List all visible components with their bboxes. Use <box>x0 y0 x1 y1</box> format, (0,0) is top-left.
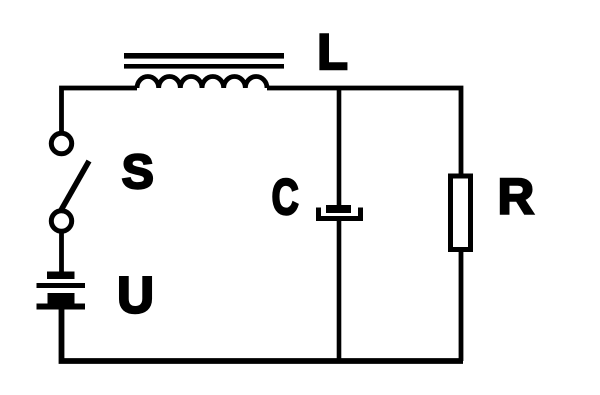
svg-text:R: R <box>498 168 534 225</box>
svg-text:U: U <box>117 267 154 324</box>
svg-text:S: S <box>122 146 154 199</box>
svg-text:C: C <box>272 169 299 225</box>
svg-text:L: L <box>317 24 348 80</box>
